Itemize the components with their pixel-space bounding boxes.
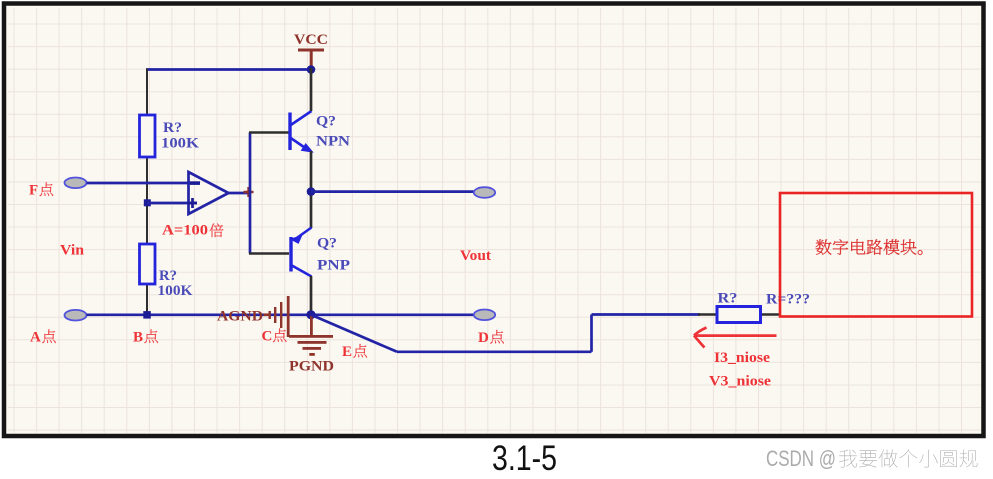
junction non-inverting tap (144, 199, 151, 206)
node B点 (133, 329, 158, 345)
wire collector rail top (310, 68, 313, 111)
svg-text:C: C (262, 329, 273, 345)
resistor R3 (717, 307, 761, 323)
resistor R1 (140, 115, 156, 157)
svg-text:Q?: Q? (317, 236, 337, 252)
transistor Q2 PNP (291, 228, 312, 277)
wire to Q1 base (249, 131, 289, 133)
svg-text:F: F (29, 183, 38, 199)
node F点 (29, 182, 53, 198)
svg-text:Q?: Q? (316, 114, 336, 130)
svg-text:A: A (30, 330, 41, 346)
resistor R2 (140, 244, 156, 284)
svg-text:PGND: PGND (289, 359, 334, 375)
annotation arrow I3 noise (694, 328, 777, 348)
port D ellipse (474, 310, 495, 321)
svg-text:B: B (133, 330, 143, 346)
watermark CSDN (766, 446, 978, 471)
wire collector rail bottom (310, 276, 313, 315)
label gain A=100倍 (162, 223, 223, 239)
svg-text:D: D (478, 330, 489, 346)
node D点 (478, 330, 504, 346)
wire riser (590, 315, 593, 352)
label 数字电路模块 (816, 239, 923, 255)
svg-text:R?: R? (163, 120, 182, 136)
svg-text:A=100: A=100 (162, 223, 208, 239)
node E点 (342, 344, 367, 360)
wire E horizontal low (397, 350, 592, 353)
wire emitter rail middle (310, 151, 313, 228)
node C点 (262, 328, 287, 344)
ground AGND (217, 296, 290, 337)
svg-text:Vout: Vout (460, 248, 491, 264)
wire R3 right pin (761, 313, 781, 315)
wire bottom rail (87, 313, 475, 316)
svg-text:R?: R? (159, 268, 177, 284)
op-amp U1 (188, 172, 229, 214)
wire left branch vertical (146, 69, 148, 316)
wire to R3 (592, 313, 701, 316)
svg-text:I3_niose: I3_niose (714, 350, 770, 366)
wire base bus vertical (249, 133, 252, 254)
digital module box (780, 193, 972, 317)
svg-text:AGND: AGND (217, 309, 263, 325)
node A点 (30, 329, 56, 345)
junction VCC rail / collector (307, 65, 316, 74)
junction B (143, 311, 151, 319)
wire non-inverting input (147, 202, 197, 205)
wire R3 left pin (698, 313, 717, 315)
wire E diagonal (311, 315, 397, 352)
wire F to op-amp inverting input (87, 182, 201, 185)
svg-text:100K: 100K (158, 283, 193, 299)
no-ERC cross at output node (244, 187, 254, 197)
wire Vout (311, 190, 474, 193)
inverting input minus tick (190, 181, 200, 185)
svg-text:V3_niose: V3_niose (709, 374, 771, 390)
svg-text:R?: R? (718, 291, 738, 307)
ground PGND (289, 316, 334, 375)
svg-text:VCC: VCC (294, 32, 328, 48)
svg-text:PNP: PNP (317, 258, 350, 274)
junction Vout tap (307, 187, 316, 196)
svg-text:E: E (342, 344, 352, 360)
junction emitter rail bottom (306, 310, 315, 319)
wire op-amp output (229, 192, 251, 195)
wire VCC rail horizontal (146, 68, 311, 71)
port F ellipse (65, 178, 87, 189)
svg-text:CSDN @: CSDN @ (766, 446, 836, 471)
wire to Q2 base (249, 252, 289, 254)
port A ellipse (65, 310, 87, 321)
port Vout ellipse (474, 187, 495, 198)
power symbol VCC (294, 32, 328, 69)
svg-text:3.1-5: 3.1-5 (492, 439, 557, 478)
svg-text:R=???: R=??? (766, 292, 810, 308)
transistor Q1 NPN (290, 111, 313, 152)
svg-text:100K: 100K (161, 136, 199, 152)
svg-text:NPN: NPN (316, 134, 350, 150)
svg-text:Vin: Vin (60, 243, 85, 259)
